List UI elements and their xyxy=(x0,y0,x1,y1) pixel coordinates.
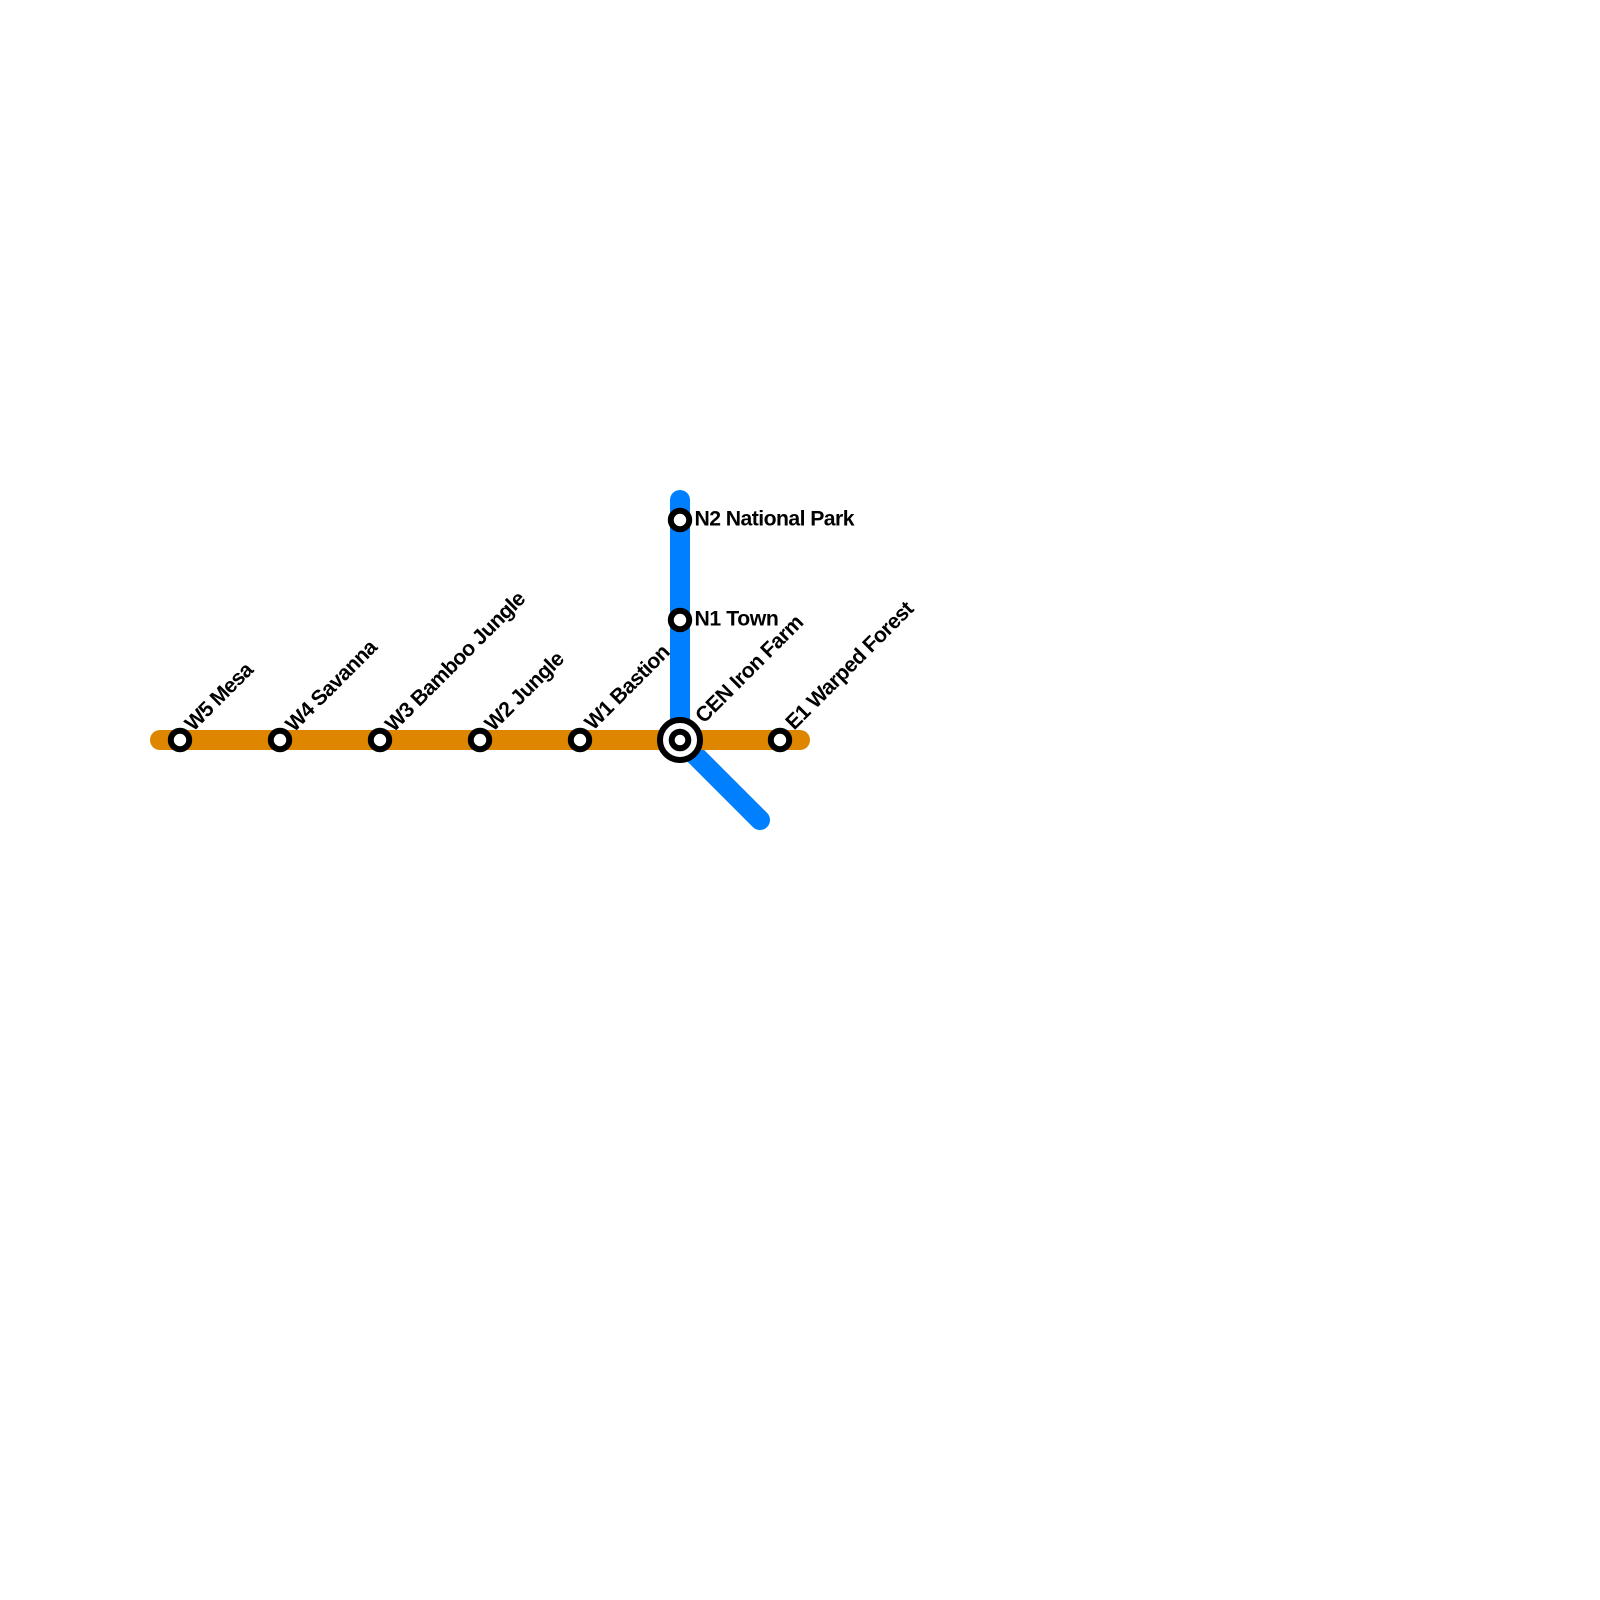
station N1 xyxy=(671,611,689,629)
interchange CEN outer ring xyxy=(660,720,700,760)
orange line W5-E1 xyxy=(160,730,800,750)
station E1 xyxy=(771,731,789,749)
interchange CEN inner ring xyxy=(672,732,689,749)
station W5 xyxy=(171,731,189,749)
station W1 xyxy=(571,731,589,749)
svg-text:N1 Town: N1 Town xyxy=(695,607,779,630)
station W2 xyxy=(471,731,489,749)
station W3 xyxy=(371,731,389,749)
svg-text:E1 Warped Forest: E1 Warped Forest xyxy=(781,597,918,734)
svg-text:W4 Savanna: W4 Savanna xyxy=(281,635,382,736)
station N2 xyxy=(671,511,689,529)
svg-text:W5 Mesa: W5 Mesa xyxy=(181,658,259,736)
svg-text:W1 Bastion: W1 Bastion xyxy=(580,640,674,734)
blue line N2-CEN-SE branch xyxy=(680,500,760,820)
station W4 xyxy=(271,731,289,749)
svg-text:W2 Jungle: W2 Jungle xyxy=(481,647,570,736)
svg-text:N2 National Park: N2 National Park xyxy=(695,507,855,530)
